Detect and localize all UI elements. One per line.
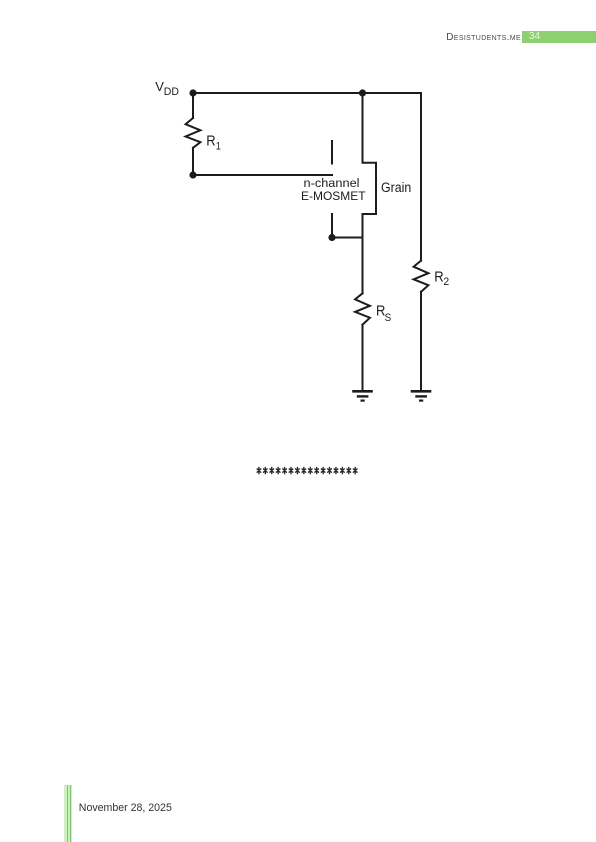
gate bar upper stub [331,141,333,164]
svg-text:R: R [434,269,443,285]
svg-text:R: R [206,134,215,150]
wire source connection [332,237,363,239]
node junction gate-source [328,234,335,241]
svg-text:Grain: Grain [381,180,411,195]
wire gate horizontal [193,174,332,176]
resistor R1 [186,118,201,148]
wire RS to ground [362,325,364,391]
svg-text:2: 2 [443,276,449,288]
label n-channel E-MOSMET [301,176,366,203]
label VDD [155,79,179,98]
resistor R2 [414,261,429,292]
wire R2 to ground [420,292,422,391]
wire R1 top lead [192,93,194,118]
footer date [79,802,172,814]
separator asterisks row [257,467,358,474]
page number box 34 [522,31,596,43]
footer green line 1 [67,785,68,842]
node junction VDD-R1 [189,89,196,96]
ground symbol left [354,391,372,400]
footer green line 2 [70,785,71,842]
label R1 [206,134,221,153]
node junction VDD-drain [359,89,366,96]
svg-text:DD: DD [164,86,179,98]
svg-text:1: 1 [216,141,221,153]
wire R1 bottom lead [192,148,194,175]
header site name [0,32,521,43]
footer green band [64,785,72,842]
ground symbol right [412,391,430,400]
label Grain (drain) [381,180,411,195]
wire R2 branch vertical top [420,93,422,261]
transistor channel (drain-source path with bump) [363,93,377,293]
svg-text:E-MOSMET: E-MOSMET [301,189,366,203]
label RS [376,304,391,325]
node junction R1-gate [189,171,196,178]
label R2 [434,269,449,288]
wire top rail VDD [193,92,421,94]
svg-text:S: S [385,312,392,324]
svg-text:n-channel: n-channel [304,176,360,190]
resistor RS [355,293,370,324]
gate bar lower stub [331,214,333,233]
